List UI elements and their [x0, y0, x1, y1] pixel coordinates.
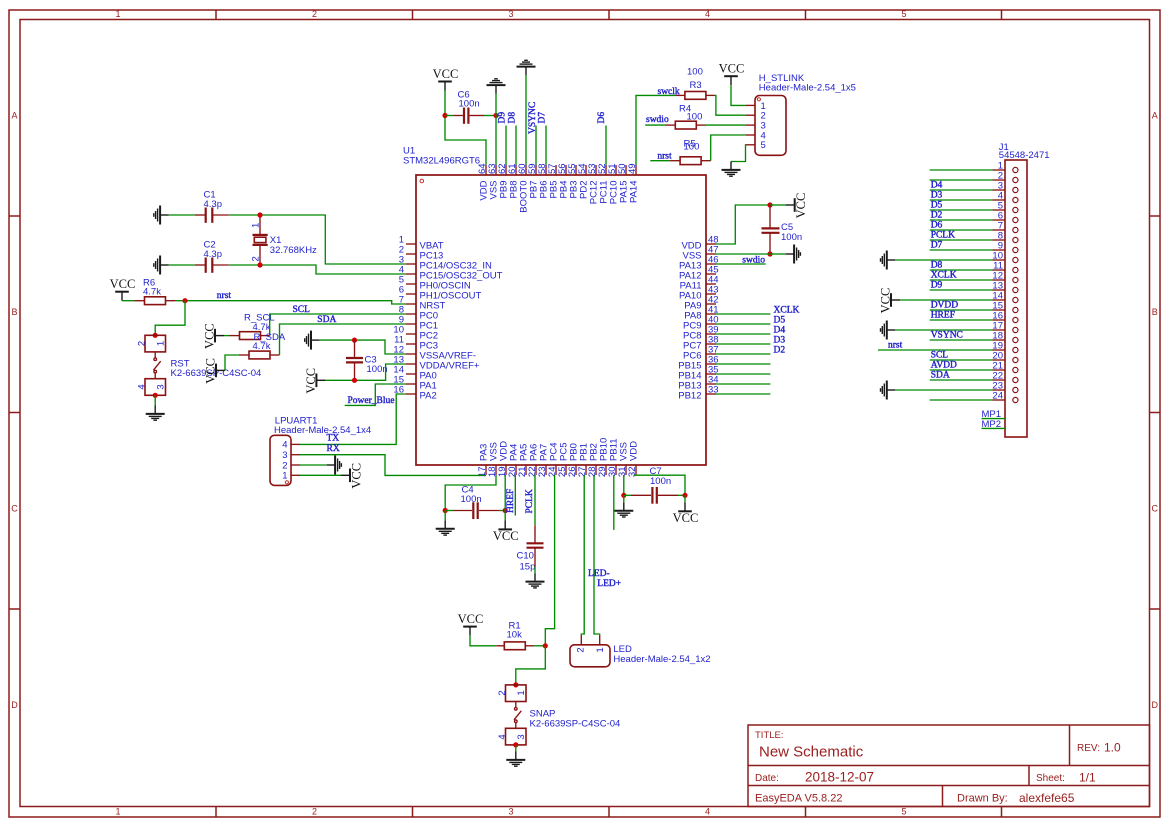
svg-text:100n: 100n	[650, 476, 671, 487]
junction C6 right	[493, 113, 498, 118]
svg-text:nrst: nrst	[217, 291, 232, 301]
svg-text:VCC: VCC	[204, 358, 218, 384]
wire: C7 right junction to VCC	[684, 495, 686, 502]
ground (J1 pin17)	[887, 329, 895, 331]
svg-text:nrst: nrst	[888, 341, 903, 351]
svg-text:D3: D3	[774, 335, 786, 345]
svg-text:D4: D4	[931, 181, 943, 191]
junction C5 bottom	[767, 251, 772, 256]
svg-text:4: 4	[705, 807, 710, 817]
wire: U1 pin30 stub	[613, 475, 615, 530]
svg-text:D7: D7	[931, 241, 943, 251]
ground (C2 left)	[160, 264, 168, 266]
svg-text:100: 100	[687, 67, 703, 78]
junction C7 right	[682, 493, 687, 498]
wire: U1 pin18 VSS to C4 ground node	[445, 475, 496, 511]
svg-text:LED-: LED-	[588, 569, 610, 579]
junction nrst-RST	[182, 298, 187, 303]
svg-text:2018-12-07: 2018-12-07	[805, 770, 874, 785]
svg-text:nrst: nrst	[657, 151, 672, 161]
svg-text:SCL: SCL	[293, 305, 311, 315]
svg-text:XCLK: XCLK	[774, 305, 800, 315]
svg-text:R3: R3	[690, 80, 702, 91]
ground (C6 / U1 pin63 VSS)	[495, 85, 497, 93]
svg-text:A: A	[1152, 111, 1158, 121]
wire: C4 to U1 pin19 VDD	[504, 475, 506, 511]
wire: SNAP to ground	[515, 745, 517, 752]
svg-text:D5: D5	[774, 315, 786, 325]
svg-text:B: B	[1152, 307, 1158, 317]
junction C5 top	[767, 202, 772, 207]
svg-text:2: 2	[312, 9, 317, 19]
wire: VCC to R_SDA	[225, 355, 239, 370]
svg-text:VCC: VCC	[458, 612, 484, 626]
svg-text:VCC: VCC	[350, 463, 364, 489]
svg-text:C10: C10	[517, 551, 534, 562]
wire: VCC to H_STLINK pin1	[731, 85, 746, 105]
svg-text:SCL: SCL	[931, 351, 949, 361]
svg-text:D2: D2	[931, 211, 943, 221]
svg-text:5: 5	[901, 9, 906, 19]
svg-text:5: 5	[761, 140, 766, 151]
wire: U1 pin31 VSS to C7 ground node	[623, 475, 625, 495]
wire: U1 pin34 stub	[716, 383, 770, 385]
svg-text:D8: D8	[931, 261, 943, 271]
ground (LPUART1 pin2)	[327, 464, 335, 466]
wire: J1 pin24	[930, 399, 993, 401]
svg-text:4: 4	[497, 734, 508, 739]
ground (J1 pin10)	[887, 259, 895, 261]
wire: U1 pin36 stub	[716, 363, 770, 365]
svg-text:100n: 100n	[367, 364, 388, 375]
svg-text:PA2: PA2	[420, 391, 437, 402]
svg-text:32.768KHz: 32.768KHz	[270, 245, 317, 256]
svg-text:VSYNC: VSYNC	[931, 331, 963, 341]
svg-text:1: 1	[155, 341, 166, 346]
wire: ground to J1 pin17	[895, 329, 992, 331]
svg-text:swdio: swdio	[646, 115, 669, 125]
svg-text:100: 100	[684, 142, 700, 153]
wire: U1 pin33 stub	[716, 393, 770, 395]
wire: C7 left junction to ground	[623, 495, 625, 502]
svg-text:54548-2471: 54548-2471	[999, 150, 1050, 161]
ground (SNAP)	[515, 752, 517, 760]
power VCC (C6)	[444, 82, 446, 91]
power VCC (J1 pin14)	[891, 299, 900, 301]
svg-text:PA14: PA14	[629, 181, 640, 204]
svg-text:24: 24	[992, 391, 1003, 402]
svg-text:1: 1	[516, 690, 527, 695]
svg-text:EasyEDA V5.8.22: EasyEDA V5.8.22	[755, 793, 842, 805]
svg-text:Header-Male-2.54_1x2: Header-Male-2.54_1x2	[613, 654, 710, 665]
svg-text:4: 4	[705, 9, 710, 19]
wire: VCC / C6 to U1 pin64 VDD	[445, 91, 486, 166]
wire: H_STLINK pin5 to ground	[731, 145, 746, 162]
wire: ground to J1 pin23	[895, 389, 992, 391]
power VCC (C7)	[684, 502, 686, 511]
svg-text:3: 3	[508, 807, 513, 817]
svg-text:4.7k: 4.7k	[143, 287, 161, 298]
svg-text:10k: 10k	[507, 630, 523, 641]
power VCC (R_SCL)	[215, 335, 224, 337]
wire: LPUART1 pin1 to VCC	[300, 474, 341, 476]
svg-text:D3: D3	[931, 191, 943, 201]
power VCC (R6)	[121, 292, 123, 301]
wire: J1 pin1	[930, 169, 993, 171]
wire: U1 pin35 stub	[716, 373, 770, 375]
svg-text:VCC: VCC	[794, 193, 808, 219]
svg-text:2: 2	[251, 256, 262, 261]
svg-text:C: C	[1151, 504, 1158, 514]
svg-text:VCC: VCC	[203, 323, 217, 349]
wire: U1 pin48 VDD to C5 node	[716, 205, 770, 244]
power VCC (C4)	[504, 520, 506, 529]
ground (C7)	[623, 502, 625, 510]
svg-text:C: C	[11, 504, 18, 514]
svg-text:1.0: 1.0	[1104, 741, 1121, 755]
svg-text:RX: RX	[327, 444, 340, 454]
junction C2-X1	[257, 262, 262, 267]
svg-text:1: 1	[251, 223, 262, 228]
svg-text:XCLK: XCLK	[931, 271, 957, 281]
svg-text:D8: D8	[507, 112, 517, 124]
wire: R5 to H_STLINK pin4	[711, 135, 746, 161]
svg-text:3: 3	[516, 734, 527, 739]
svg-text:1/1: 1/1	[1079, 771, 1096, 785]
svg-text:alexfefe65: alexfefe65	[1019, 791, 1075, 805]
svg-text:SDA: SDA	[317, 315, 336, 325]
svg-text:Power_Blue: Power_Blue	[348, 396, 395, 406]
svg-text:VCC: VCC	[433, 67, 459, 81]
wire: U1 pin32 VDD to C7	[634, 475, 685, 495]
ground (C10)	[534, 573, 536, 581]
ground (C1 left)	[160, 214, 168, 216]
power VCC (C5)	[786, 204, 795, 206]
wire: ground to C2	[169, 264, 195, 266]
svg-text:5: 5	[901, 807, 906, 817]
power VCC (R_SDA)	[216, 369, 225, 371]
svg-text:D9: D9	[931, 281, 943, 291]
svg-text:SDA: SDA	[931, 371, 950, 381]
svg-text:VCC: VCC	[110, 277, 136, 291]
junction C3 bottom	[352, 378, 357, 383]
ground (C5)	[786, 253, 794, 255]
svg-text:D7: D7	[537, 112, 547, 124]
wire: J1 pin2	[930, 179, 993, 181]
svg-text:Drawn By:: Drawn By:	[957, 793, 1008, 805]
wire: nrst junction to RST switch	[155, 301, 185, 336]
svg-text:New Schematic: New Schematic	[759, 744, 864, 761]
svg-text:PCLK: PCLK	[931, 231, 955, 241]
power VCC (LPUART1 pin1)	[341, 474, 350, 476]
svg-text:AVDD: AVDD	[931, 361, 957, 371]
wire: U1 pin47 VSS to C5	[716, 253, 770, 255]
wire: C4 right junction to VCC	[504, 511, 506, 521]
wire: R4 to H_STLINK pin3	[706, 124, 746, 126]
wire net OSC32_IN: C1 / X1 pin1 / U1 pin3	[229, 215, 406, 264]
svg-text:STM32L496RGT6: STM32L496RGT6	[403, 156, 480, 167]
wire: C4 left junction to ground	[444, 511, 446, 521]
svg-text:DVDD: DVDD	[931, 301, 959, 311]
ground (C4)	[444, 520, 446, 528]
svg-text:2: 2	[312, 807, 317, 817]
wire: C5 top junction to VCC	[770, 204, 786, 206]
svg-text:VCC: VCC	[304, 368, 318, 394]
svg-text:VCC: VCC	[879, 288, 893, 314]
svg-text:X1: X1	[270, 235, 282, 246]
wire: BOOT0 to ground	[525, 75, 527, 165]
wire: C10 to ground	[534, 567, 536, 574]
svg-text:PB12: PB12	[678, 391, 701, 402]
wire net OSC32_OUT: C2 / X1 pin2 / U1 pin4	[229, 265, 406, 274]
wire net nrst: R6 to U1 pin7	[176, 300, 185, 302]
junction R1-SNAP	[543, 643, 548, 648]
junction C7 left	[621, 493, 626, 498]
svg-text:PCLK: PCLK	[525, 489, 535, 513]
svg-text:D9: D9	[497, 112, 507, 124]
svg-text:VDD: VDD	[629, 441, 640, 461]
wire net VSSA: ground / C3 / U1 pin12	[319, 340, 406, 354]
ground (C3 top)	[311, 339, 319, 341]
svg-text:2: 2	[136, 341, 147, 346]
wire: R1 junction to SNAP	[516, 646, 546, 685]
svg-text:3: 3	[508, 9, 513, 19]
svg-text:VCC: VCC	[673, 511, 699, 525]
ground (J1 pin23)	[887, 389, 895, 391]
svg-text:VCC: VCC	[719, 62, 745, 76]
junction C4 right	[503, 508, 508, 513]
svg-text:K2-6639SP-C4SC-04: K2-6639SP-C4SC-04	[530, 719, 621, 730]
svg-text:B: B	[11, 307, 17, 317]
svg-text:D6: D6	[931, 221, 943, 231]
svg-text:2: 2	[575, 647, 586, 652]
svg-text:TITLE:: TITLE:	[755, 730, 784, 741]
wire net VDDA: VCC / C3 / U1 pin13	[325, 364, 406, 380]
svg-text:D: D	[1151, 700, 1158, 710]
svg-text:D: D	[11, 700, 18, 710]
power VCC (C3 bottom)	[316, 379, 325, 381]
svg-text:D4: D4	[774, 325, 786, 335]
svg-text:2: 2	[497, 690, 508, 695]
wire: R3 to H_STLINK pin2	[715, 95, 747, 115]
svg-text:1: 1	[115, 807, 120, 817]
wire: VCC to J1 pin14	[900, 299, 993, 301]
svg-text:Header-Male-2.54_1x4: Header-Male-2.54_1x4	[274, 425, 371, 436]
junction C3 top	[352, 338, 357, 343]
wire: U1 pin24 to R1 node	[545, 475, 554, 646]
power VCC (R1)	[469, 627, 471, 636]
wire: ground / C6 to U1 pin63	[495, 94, 497, 166]
svg-text:LED+: LED+	[597, 579, 621, 589]
svg-text:D2: D2	[774, 345, 786, 355]
junction C1-X1	[257, 212, 262, 217]
wire: VCC to R1	[470, 636, 496, 646]
junction C6 left	[442, 113, 447, 118]
junction C4 left	[443, 508, 448, 513]
svg-text:1: 1	[115, 9, 120, 19]
wire: ground to C1	[169, 214, 195, 216]
svg-text:REV:: REV:	[1077, 743, 1100, 754]
svg-text:HREF: HREF	[931, 311, 955, 321]
ground (RST)	[154, 406, 156, 414]
svg-text:4: 4	[136, 384, 147, 389]
svg-text:49: 49	[627, 163, 638, 174]
wire: RST to ground	[154, 395, 156, 405]
svg-text:VCC: VCC	[493, 529, 519, 543]
svg-text:Header-Male-2.54_1x5: Header-Male-2.54_1x5	[759, 82, 856, 93]
svg-text:Date:: Date:	[755, 773, 779, 784]
ground (H_STLINK pin5)	[730, 162, 732, 170]
svg-text:D6: D6	[597, 112, 607, 124]
wire: C5 bottom junction to ground	[770, 253, 786, 255]
title block	[748, 725, 1150, 807]
svg-text:1: 1	[595, 647, 606, 652]
ground (U1 pin60 BOOT0)	[525, 67, 527, 75]
svg-text:A: A	[11, 111, 17, 121]
svg-text:D5: D5	[931, 201, 943, 211]
wire: LPUART1 pin2 to ground	[300, 464, 327, 466]
svg-text:3: 3	[155, 384, 166, 389]
svg-text:1: 1	[282, 471, 287, 482]
wire: ground to J1 pin10	[895, 259, 992, 261]
power VCC (H_STLINK pin1)	[730, 76, 732, 85]
svg-text:100n: 100n	[781, 232, 802, 243]
svg-text:15p: 15p	[520, 562, 536, 573]
svg-text:Sheet:: Sheet:	[1036, 773, 1065, 784]
